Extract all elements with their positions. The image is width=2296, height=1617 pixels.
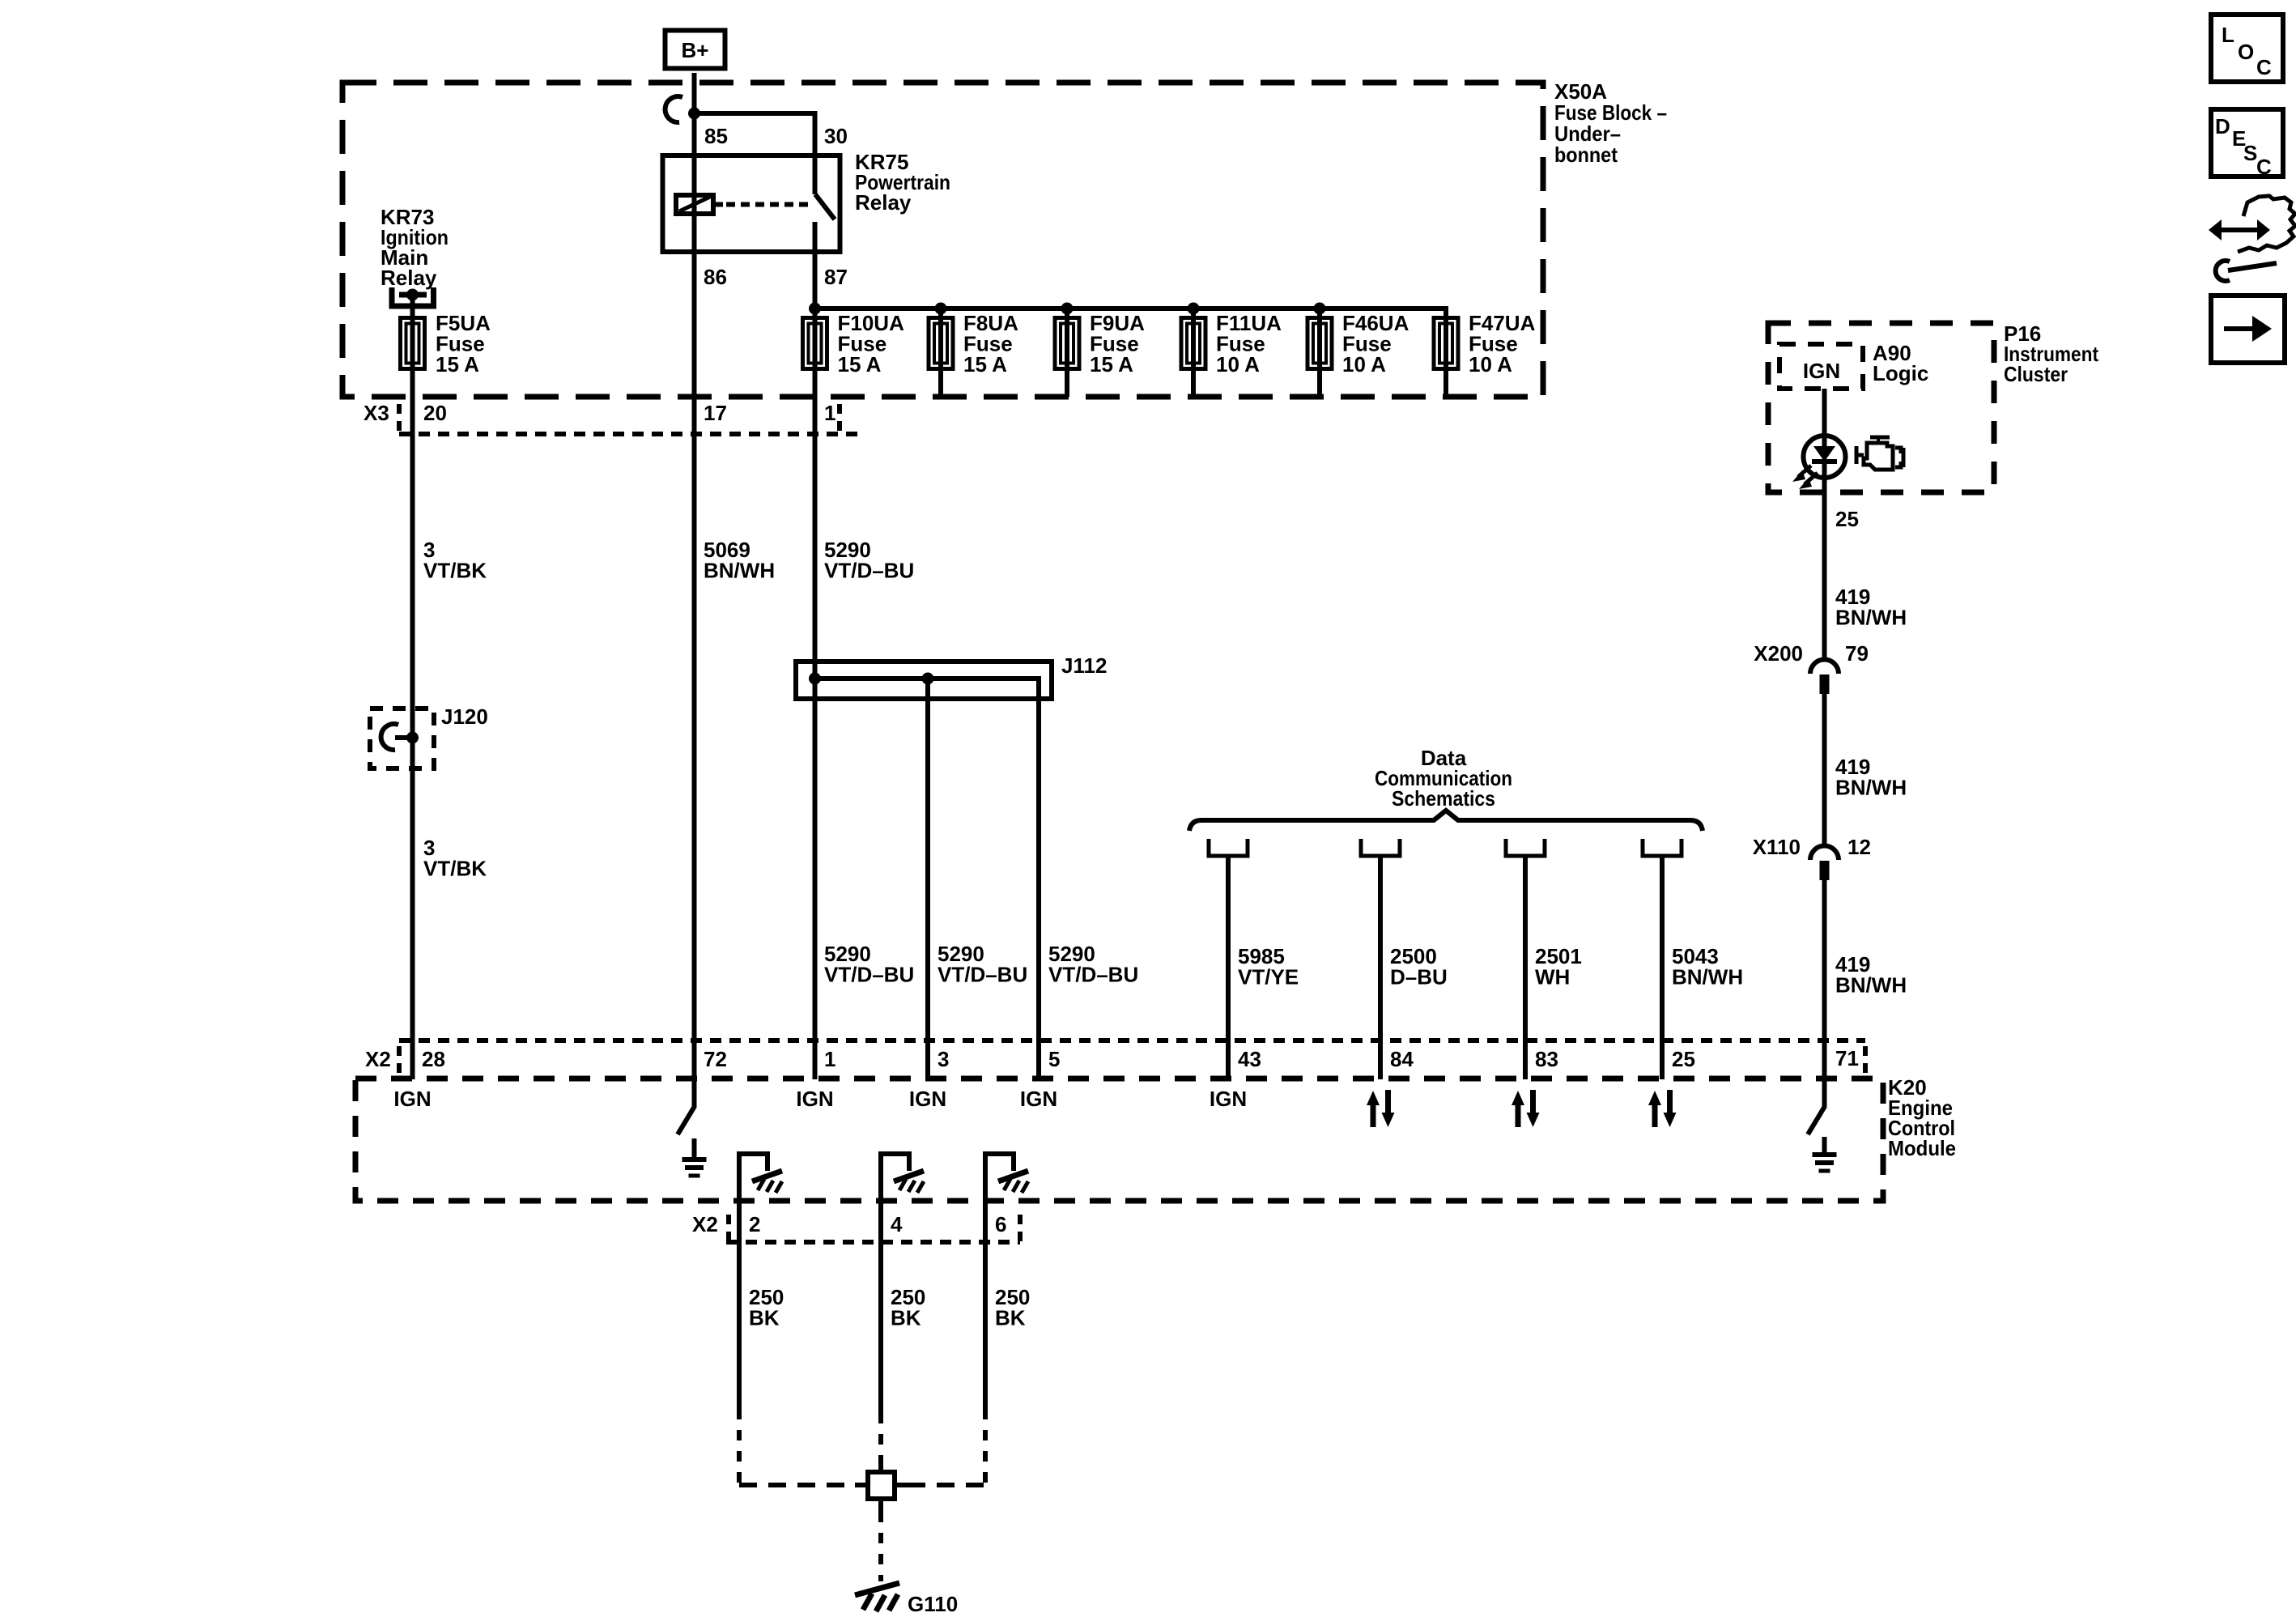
label P16 Instrument Cluster (2004, 321, 2098, 386)
connector terminal symbol wire 5985 (1209, 839, 1248, 856)
logic module A90 dashed box (1779, 344, 1863, 389)
svg-text:15 A: 15 A (838, 352, 882, 377)
node bus at F11UA (1188, 303, 1200, 315)
fuse F11UA (1181, 318, 1205, 369)
ground hook pin 2 internal (739, 1154, 782, 1193)
wire KR73 to fuse F5UA (410, 295, 415, 371)
wire pin 4 ground (250 BK) (878, 1151, 883, 1413)
splice pack J112 box (796, 662, 1052, 699)
wire label 5069 BN/WH (704, 538, 775, 583)
svg-text:D–BU: D–BU (1390, 965, 1448, 989)
svg-text:J112: J112 (1061, 653, 1107, 678)
connector X110 labels (1753, 835, 1871, 859)
connector X3 left tick (397, 404, 402, 434)
connector hook on B+ wire (665, 96, 682, 122)
svg-text:BN/WH: BN/WH (1672, 965, 1743, 989)
svg-text:X2: X2 (692, 1212, 718, 1236)
J120 branch hook (381, 724, 413, 750)
connector terminal symbol wire 2501 (1506, 839, 1545, 856)
label F10UA Fuse 15 A (838, 311, 905, 377)
wire label 5043 BN/WH (1672, 944, 1743, 989)
wire F11UA stub (1191, 309, 1196, 397)
wire X200 to X110 (1822, 694, 1827, 846)
label F47UA Fuse 10 A (1469, 311, 1536, 377)
dashed harness center to ground pad (878, 1413, 883, 1459)
connector X2 left tick (397, 1046, 402, 1077)
svg-text:IGN: IGN (393, 1087, 431, 1111)
wire label 3 VT/BK upper (423, 538, 487, 583)
wire F46UA stub (1317, 309, 1322, 397)
svg-text:85: 85 (704, 124, 728, 148)
icon hand with arrows and wrench (2209, 196, 2295, 281)
connector X3 dashed line (399, 432, 858, 436)
svg-text:Cluster: Cluster (2004, 362, 2068, 386)
dashed wire to G110 (878, 1512, 883, 1581)
svg-text:3: 3 (938, 1047, 949, 1071)
svg-text:bonnet: bonnet (1554, 143, 1618, 167)
svg-text:Relay: Relay (855, 190, 912, 215)
relay KR73 contact symbol (392, 287, 434, 306)
svg-text:G110: G110 (908, 1592, 958, 1616)
node bus at F46UA (1314, 303, 1326, 315)
svg-text:15 A: 15 A (1090, 352, 1133, 377)
svg-text:72: 72 (704, 1047, 727, 1071)
svg-text:1: 1 (824, 1047, 835, 1071)
svg-text:J120: J120 (441, 704, 488, 729)
wire label 5290 VT/D-BU upper (824, 538, 914, 583)
svg-text:84: 84 (1390, 1047, 1414, 1071)
svg-text:79: 79 (1845, 641, 1869, 666)
relay KR75 coil (676, 195, 713, 214)
fuse F10UA (803, 318, 827, 369)
label F8UA Fuse 15 A (963, 311, 1018, 377)
svg-text:17: 17 (704, 401, 727, 425)
splice J120 dashed box (370, 709, 434, 768)
svg-text:VT/D–BU: VT/D–BU (938, 963, 1027, 987)
fuse bus wire (815, 309, 1447, 317)
wire pin 6 ground (250 BK) (983, 1151, 988, 1409)
svg-text:VT/D–BU: VT/D–BU (824, 559, 914, 583)
wire label 419 BN/WH third (1835, 952, 1907, 998)
wire F10UA down (5290 VT/D-BU) (813, 317, 818, 1079)
svg-text:D: D (2215, 114, 2230, 138)
wire J112 to pin 3 (925, 679, 930, 1079)
wire label 419 BN/WH second (1835, 755, 1907, 800)
label F11UA Fuse 10 A (1216, 311, 1282, 377)
label F5UA Fuse 15 A (436, 311, 491, 377)
connector X200 symbol (1810, 660, 1839, 694)
dashed harness bottom right (908, 1483, 985, 1487)
svg-text:B+: B+ (682, 38, 709, 62)
wire X110 to ECM pin 71 (1822, 880, 1827, 1107)
connector X2 right tick (1863, 1046, 1868, 1077)
svg-text:Relay: Relay (381, 266, 437, 290)
brace for data communication schematics (1189, 811, 1703, 831)
wire branch to relay pin 30 (695, 113, 815, 194)
svg-text:20: 20 (423, 401, 447, 425)
node J112 at wire 3 (922, 673, 934, 685)
svg-text:C: C (2256, 55, 2272, 79)
LED emission arrows (1792, 466, 1818, 489)
svg-text:BK: BK (749, 1306, 780, 1330)
wire label 250 BK a (749, 1285, 784, 1330)
wire label 5290 VT/D-BU lower b (938, 942, 1027, 987)
connector terminal symbol wire 5043 (1643, 839, 1682, 856)
svg-text:10 A: 10 A (1469, 352, 1512, 377)
svg-text:BN/WH: BN/WH (704, 559, 775, 583)
svg-text:30: 30 (824, 124, 848, 148)
wire A90 to indicator LED (1822, 389, 1827, 447)
svg-text:86: 86 (704, 265, 727, 289)
svg-text:10 A: 10 A (1216, 352, 1260, 377)
label Data Communication Schematics (1375, 746, 1512, 811)
LED diode triangle (1813, 446, 1835, 462)
svg-text:X110: X110 (1753, 835, 1801, 859)
svg-text:12: 12 (1847, 835, 1871, 859)
svg-text:15 A: 15 A (963, 352, 1007, 377)
svg-text:15 A: 15 A (436, 352, 479, 377)
connector X2 bottom dashed line (726, 1240, 1020, 1245)
wire label 2500 D-BU (1390, 944, 1448, 989)
serial data arrows pin 84 (1367, 1090, 1395, 1127)
svg-text:IGN: IGN (1210, 1087, 1247, 1111)
node junction on B+ wire (688, 108, 700, 120)
wire pin 72 internal switch (678, 1079, 695, 1134)
relay KR75 box (663, 155, 840, 252)
wire LED to pin 25 of cluster (1822, 462, 1827, 660)
ground pad junction square (855, 1459, 908, 1512)
wire label 5985 VT/YE (1238, 944, 1299, 989)
wire 2500 D-BU to pin 84 (1378, 856, 1383, 1079)
label X50A Fuse Block Underbonnet (1554, 79, 1667, 167)
icon box arrow (2211, 296, 2285, 363)
node bus at F9UA (1061, 303, 1074, 315)
node junction J120 (406, 732, 419, 744)
svg-text:VT/YE: VT/YE (1238, 965, 1299, 989)
icon box LOC (2211, 15, 2283, 82)
wire 2501 WH to pin 83 (1523, 856, 1528, 1079)
ground G110 symbol (855, 1583, 899, 1611)
relay KR75 switch blade (815, 194, 835, 219)
svg-text:43: 43 (1238, 1047, 1261, 1071)
connector X110 symbol (1810, 846, 1839, 880)
svg-text:28: 28 (422, 1047, 445, 1071)
LED cathode bar (1812, 459, 1837, 464)
wire label 2501 WH (1535, 944, 1582, 989)
svg-text:BN/WH: BN/WH (1835, 776, 1907, 800)
label KR75 Powertrain Relay (855, 150, 950, 215)
wire relay pin 87 to fuse bus (813, 222, 818, 371)
wire label 419 BN/WH first (1835, 585, 1907, 630)
fuse F9UA (1055, 318, 1079, 369)
svg-text:25: 25 (1672, 1047, 1695, 1071)
svg-text:IGN: IGN (909, 1087, 946, 1111)
check engine icon (1856, 437, 1903, 470)
svg-text:BN/WH: BN/WH (1835, 973, 1907, 998)
svg-text:X2: X2 (365, 1047, 391, 1071)
node J112 at wire 1 (809, 673, 821, 685)
svg-text:VT/BK: VT/BK (423, 559, 487, 583)
svg-text:1: 1 (824, 401, 835, 425)
J112 internal bus (815, 679, 1040, 699)
svg-text:IGN: IGN (1020, 1087, 1057, 1111)
wire F47UA stub (1444, 309, 1448, 397)
svg-text:VT/D–BU: VT/D–BU (1048, 963, 1138, 987)
svg-text:C: C (2256, 155, 2272, 179)
connector X2 bottom right tick (1018, 1215, 1023, 1242)
engine control module K20 dashed box (355, 1079, 1883, 1201)
svg-text:87: 87 (824, 265, 848, 289)
wire label 3 VT/BK lower (423, 836, 487, 881)
wire J112 to pin 5 (1036, 679, 1041, 1079)
svg-text:X3: X3 (364, 401, 389, 425)
fuse F8UA (929, 318, 953, 369)
dashed harness bottom left (739, 1483, 855, 1487)
label KR73 Ignition Main Relay (381, 205, 449, 290)
dashed harness right to splice box (983, 1409, 988, 1485)
svg-text:X200: X200 (1754, 641, 1803, 666)
svg-text:BK: BK (891, 1306, 921, 1330)
fuse block X50A dashed box (342, 83, 1543, 397)
connector X200 labels (1754, 641, 1869, 666)
relay KR75 mechanical link dashed (713, 202, 723, 207)
dashed harness left to splice box (737, 1409, 742, 1485)
svg-text:BN/WH: BN/WH (1835, 606, 1907, 630)
icon box DESC (2211, 109, 2283, 179)
svg-text:5: 5 (1048, 1047, 1060, 1071)
instrument cluster P16 dashed box (1768, 323, 1994, 492)
svg-text:Schematics: Schematics (1392, 786, 1495, 811)
wire label 5290 VT/D-BU lower c (1048, 942, 1138, 987)
wire pin 2 ground (250 BK) (737, 1151, 742, 1409)
svg-text:VT/D–BU: VT/D–BU (824, 963, 914, 987)
svg-text:83: 83 (1535, 1047, 1558, 1071)
svg-text:BK: BK (995, 1306, 1026, 1330)
ground symbol pin 72 internal (682, 1138, 707, 1176)
label K20 Engine Control Module (1888, 1075, 1956, 1160)
svg-text:VT/BK: VT/BK (423, 857, 487, 881)
svg-text:IGN: IGN (796, 1087, 833, 1111)
fuse F47UA (1434, 318, 1458, 369)
svg-text:4: 4 (891, 1212, 903, 1236)
ground hook pin 6 internal (985, 1154, 1028, 1193)
svg-text:S: S (2243, 141, 2257, 165)
svg-text:71: 71 (1835, 1046, 1859, 1070)
wire 5985 VT/YE to pin 43 (1226, 856, 1231, 1079)
label F46UA Fuse 10 A (1342, 311, 1409, 377)
svg-text:25: 25 (1835, 507, 1859, 531)
wire pin 71 internal switch (1808, 1079, 1825, 1134)
svg-text:2: 2 (749, 1212, 760, 1236)
svg-text:IGN: IGN (1803, 359, 1840, 383)
wire label 250 BK c (995, 1285, 1030, 1330)
wire label 5290 VT/D-BU lower a (824, 942, 914, 987)
wire relay pin 86 down (5069 BN/WH) (692, 214, 697, 1079)
svg-text:10 A: 10 A (1342, 352, 1386, 377)
svg-text:O: O (2238, 40, 2254, 64)
svg-text:Logic: Logic (1873, 361, 1928, 385)
svg-text:L: L (2222, 23, 2234, 47)
wire B+ to relay coil pin 85 (692, 73, 697, 219)
label F9UA Fuse 15 A (1090, 311, 1145, 377)
connector X2 top dashed line (399, 1038, 1865, 1043)
wire F8UA stub (938, 309, 943, 397)
wire F9UA stub (1065, 309, 1069, 397)
serial data arrows pin 83 (1512, 1090, 1540, 1127)
ground symbol pin 71 internal (1813, 1137, 1837, 1171)
serial data arrows pin 25 (1648, 1090, 1677, 1127)
svg-text:6: 6 (995, 1212, 1006, 1236)
svg-text:Module: Module (1888, 1136, 1956, 1160)
wire 5043 BN/WH to pin 25 (1660, 856, 1665, 1079)
fuse F5UA (401, 318, 425, 369)
wire F5UA down (3 VT/BK) (410, 317, 415, 1079)
svg-text:WH: WH (1535, 965, 1570, 989)
connector terminal symbol wire 2500 (1361, 839, 1400, 856)
node bus at F8UA (935, 303, 947, 315)
connector X2 bottom left tick (726, 1215, 731, 1242)
wire label 250 BK b (891, 1285, 925, 1330)
ground hook pin 4 internal (881, 1154, 924, 1193)
node bus at F10UA (809, 303, 821, 315)
label A90 Logic (1873, 341, 1928, 385)
connector X3 right tick (837, 404, 842, 434)
battery feed B+ terminal box (665, 31, 725, 69)
fuse F46UA (1307, 318, 1332, 369)
indicator LED circle (1804, 436, 1846, 478)
